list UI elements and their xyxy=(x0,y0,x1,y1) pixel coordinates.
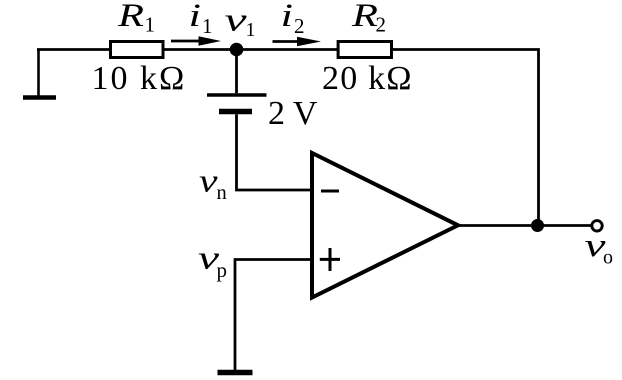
label R1 xyxy=(117,0,155,37)
label v1 xyxy=(225,3,256,42)
current arrow i1 xyxy=(171,36,221,45)
svg-text:v: v xyxy=(225,3,248,39)
battery V1 long plate (+) xyxy=(207,93,267,97)
resistor R2 xyxy=(338,42,391,58)
svg-text:i: i xyxy=(189,0,202,34)
ground (bottom, at vp) xyxy=(218,370,253,376)
svg-text:n: n xyxy=(217,182,227,204)
wire: non-inverting input (node vp) to bottom ground xyxy=(235,260,313,372)
svg-text:R: R xyxy=(351,0,378,34)
ground (left, at R1 input) xyxy=(23,50,56,98)
wire: R1 to node v1 to R2 xyxy=(162,48,339,51)
svg-text:1: 1 xyxy=(202,14,213,38)
wire: R2 to top-right corner, feedback down to output node xyxy=(391,50,539,226)
battery V1 short plate (-) xyxy=(219,109,252,115)
svg-text:1: 1 xyxy=(145,13,156,37)
op-amp inverting pin mark (-) xyxy=(321,190,339,193)
svg-text:10 kΩ: 10 kΩ xyxy=(92,60,187,97)
op-amp non-inverting pin mark (+) xyxy=(320,248,340,271)
wire: op-amp output to terminal xyxy=(456,224,591,227)
label i1 xyxy=(189,0,213,38)
svg-text:v: v xyxy=(199,163,218,199)
svg-text:2 V: 2 V xyxy=(268,95,318,132)
label i2 xyxy=(281,0,305,38)
wire: battery to inverting input (node vn) xyxy=(237,114,314,190)
resistor R1 xyxy=(111,42,164,58)
svg-text:2: 2 xyxy=(294,14,305,38)
label R2 xyxy=(351,0,386,37)
label vp xyxy=(198,241,227,283)
svg-text:p: p xyxy=(217,258,228,282)
label vo xyxy=(585,228,614,268)
battery V1 2V: top lead xyxy=(235,50,238,94)
node v1 (junction dot) xyxy=(230,43,244,57)
junction dot at output/feedback xyxy=(531,219,544,232)
svg-text:o: o xyxy=(603,246,613,268)
svg-text:i: i xyxy=(281,0,294,34)
svg-text:R: R xyxy=(117,0,144,34)
label vn xyxy=(199,163,227,204)
output terminal (open circle) xyxy=(592,221,602,231)
op-amp U1 xyxy=(312,153,458,298)
svg-text:1: 1 xyxy=(246,19,256,41)
svg-text:20 kΩ: 20 kΩ xyxy=(322,60,413,97)
svg-text:2: 2 xyxy=(376,13,387,37)
current arrow i2 xyxy=(273,37,322,46)
wire: left ground to R1 xyxy=(37,48,111,51)
